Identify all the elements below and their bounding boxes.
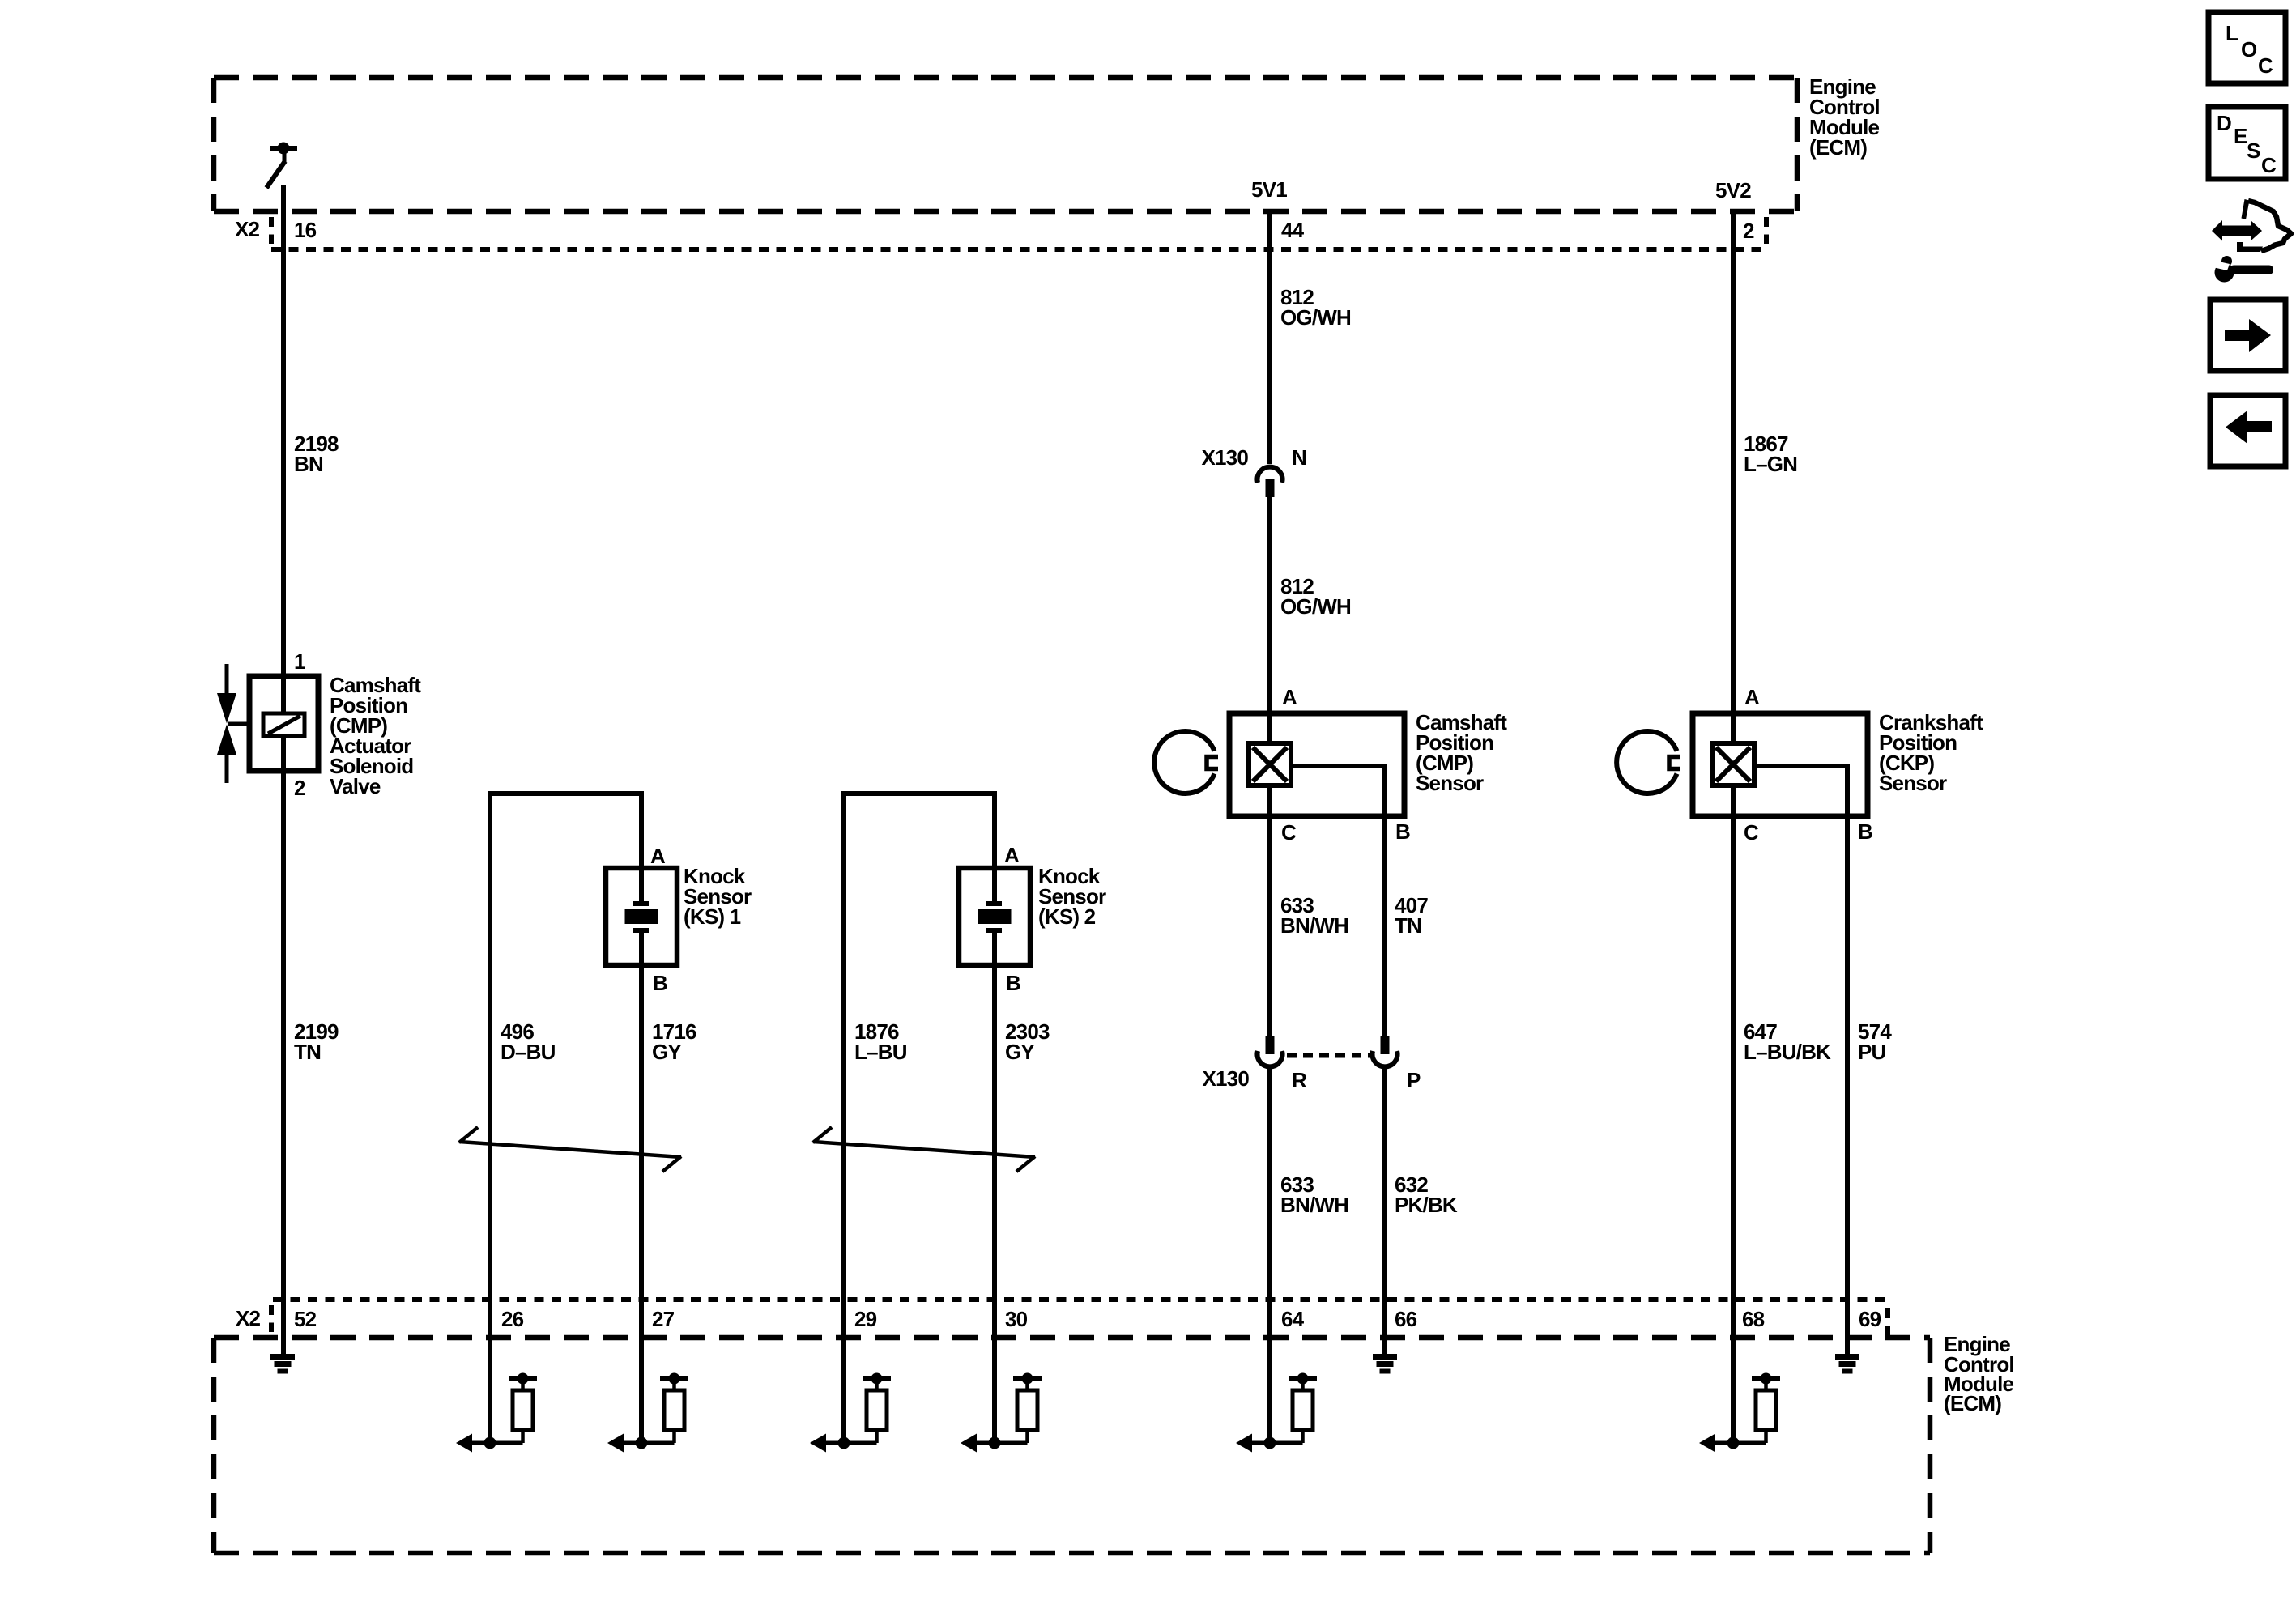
twisted pair mark KS1 — [459, 1127, 681, 1172]
svg-text:29: 29 — [854, 1307, 877, 1331]
svg-text:68: 68 — [1742, 1307, 1765, 1331]
wire 2303 GY from KS2 B — [992, 932, 997, 1443]
wire label 633 BN/WH lower — [1280, 1172, 1348, 1217]
wire label 633 BN/WH upper — [1280, 893, 1348, 938]
wire 632 PK/BK — [1382, 1069, 1387, 1356]
label Knock Sensor (KS) 2 — [1038, 864, 1106, 929]
svg-text:BN/WH: BN/WH — [1280, 913, 1348, 938]
wire 2198 BN / 2199 TN vertical — [281, 185, 286, 1356]
svg-text:52: 52 — [294, 1307, 317, 1331]
CKP sensor reluctor wheel — [1617, 731, 1680, 794]
svg-text:B: B — [1858, 819, 1872, 844]
svg-text:OG/WH: OG/WH — [1280, 594, 1351, 619]
icon LOC box — [2209, 12, 2285, 83]
valve symbol of CMP actuator — [217, 664, 250, 783]
wire 812 OG/WH (5V1) — [1267, 211, 1272, 464]
ECM bottom box (dashed outline) — [214, 1338, 1930, 1553]
wire 633 BN/WH lower — [1267, 1069, 1272, 1443]
wire label 632 PK/BK — [1395, 1172, 1458, 1217]
svg-text:OG/WH: OG/WH — [1280, 305, 1351, 330]
wire label 407 TN — [1395, 893, 1428, 938]
svg-text:X2: X2 — [236, 1306, 261, 1330]
svg-text:(KS) 2: (KS) 2 — [1038, 904, 1096, 929]
svg-text:Sensor: Sensor — [1416, 771, 1484, 795]
svg-text:X130: X130 — [1201, 445, 1248, 470]
svg-text:1: 1 — [294, 649, 305, 674]
CMP sensing element — [1249, 743, 1291, 785]
svg-text:B: B — [1006, 971, 1020, 995]
svg-text:Valve: Valve — [330, 774, 381, 798]
wire 1867 L-GN (5V2) — [1731, 211, 1736, 746]
svg-text:A: A — [650, 844, 666, 868]
svg-text:C: C — [1281, 820, 1297, 845]
ECM input circuit pin 27 — [607, 1373, 688, 1453]
ECM top box (dashed outline) — [214, 78, 1797, 211]
svg-text:16: 16 — [294, 218, 317, 242]
svg-text:L–BU: L–BU — [854, 1040, 907, 1064]
svg-text:D: D — [2217, 111, 2231, 135]
svg-text:N: N — [1292, 445, 1306, 470]
knock sensor 2 loop wire 1876 — [841, 791, 997, 1443]
svg-text:A: A — [1004, 843, 1020, 867]
connector X130 pin P female — [1373, 1051, 1398, 1066]
ECM input circuit pin 30 — [961, 1373, 1042, 1453]
wire label 1876 L-BU — [854, 1019, 907, 1064]
svg-text:27: 27 — [652, 1307, 675, 1331]
svg-text:O: O — [2241, 37, 2257, 62]
ground pin 66 — [1373, 1357, 1397, 1372]
twisted pair mark KS2 — [813, 1127, 1035, 1172]
svg-text:5V1: 5V1 — [1251, 177, 1287, 202]
svg-text:66: 66 — [1395, 1307, 1417, 1331]
connector X2 top row dotted line — [271, 247, 1763, 252]
wire label 2198 BN — [294, 432, 339, 476]
svg-text:C: C — [2261, 153, 2277, 177]
svg-text:L–GN: L–GN — [1744, 452, 1797, 476]
svg-text:(ECM): (ECM) — [1809, 135, 1867, 160]
svg-text:S: S — [2247, 138, 2260, 163]
connector X2 top separator left — [269, 217, 274, 244]
wire label 1867 L-GN — [1744, 432, 1797, 476]
wire label 2199 TN — [294, 1019, 339, 1064]
connector X130 pin N male plug — [1266, 479, 1275, 497]
connector X130 pin R male plug — [1266, 1036, 1275, 1054]
connector X130 bridge dashed — [1287, 1053, 1370, 1058]
svg-text:A: A — [1744, 685, 1760, 709]
svg-text:L: L — [2226, 21, 2238, 45]
svg-text:2: 2 — [294, 776, 305, 800]
connector X2 bottom separator left — [269, 1305, 274, 1332]
icon arrow right box — [2210, 300, 2285, 371]
knock sensor KS2 box — [959, 868, 1030, 965]
label Crankshaft Position (CKP) Sensor — [1879, 710, 1983, 795]
wire label 812 OG/WH upper — [1280, 285, 1351, 330]
ECM input circuit pin 64 — [1236, 1373, 1317, 1453]
svg-text:C: C — [1744, 820, 1759, 845]
wire 1716 GY from KS1 B — [639, 932, 644, 1443]
ECM input circuit pin 26 — [456, 1373, 537, 1453]
label Knock Sensor (KS) 1 — [684, 864, 752, 929]
svg-text:C: C — [2258, 53, 2273, 78]
svg-text:PK/BK: PK/BK — [1395, 1193, 1458, 1217]
icon DESC box — [2209, 107, 2285, 179]
label Engine Control Module (ECM) top — [1809, 74, 1880, 160]
knock sensor KS1 box — [606, 868, 677, 965]
svg-text:69: 69 — [1859, 1307, 1881, 1331]
wire label 647 L-BU/BK — [1744, 1019, 1831, 1064]
KS1 piezo element — [625, 904, 658, 930]
svg-text:B: B — [653, 971, 667, 995]
CKP sensor box — [1693, 713, 1868, 816]
wire label 812 OG/WH lower — [1280, 574, 1351, 619]
ECM low-side driver switch Q — [266, 143, 297, 189]
svg-text:44: 44 — [1281, 218, 1305, 242]
connector X130 pin P male plug — [1381, 1036, 1390, 1054]
connector X2 bottom row dotted line — [273, 1297, 1886, 1302]
svg-text:D–BU: D–BU — [501, 1040, 556, 1064]
wire label 1716 GY — [652, 1019, 696, 1064]
svg-text:B: B — [1395, 819, 1410, 844]
svg-text:GY: GY — [1005, 1040, 1034, 1064]
wire 574 PU from CKP B — [1753, 766, 1847, 1356]
wire 633 BN/WH from CMP C — [1267, 783, 1272, 1036]
svg-text:5V2: 5V2 — [1715, 178, 1751, 202]
wire 647 L-BU/BK from CKP C — [1731, 783, 1736, 1443]
ground pin 69 — [1835, 1357, 1859, 1372]
svg-text:L–BU/BK: L–BU/BK — [1744, 1040, 1831, 1064]
svg-text:R: R — [1292, 1068, 1307, 1092]
connector X130 pin N female — [1258, 467, 1283, 483]
svg-text:PU: PU — [1858, 1040, 1886, 1064]
svg-text:(ECM): (ECM) — [1944, 1391, 2001, 1415]
label Camshaft Position (CMP) Actuator Solenoid Valve — [330, 673, 421, 798]
KS2 piezo element — [978, 904, 1012, 930]
svg-text:30: 30 — [1005, 1307, 1028, 1331]
svg-text:2: 2 — [1743, 219, 1754, 243]
label Camshaft Position (CMP) Sensor — [1416, 710, 1507, 795]
wire label 496 D-BU — [501, 1019, 556, 1064]
label Engine Control Module (ECM) bottom — [1944, 1332, 2014, 1415]
svg-text:Sensor: Sensor — [1879, 771, 1947, 795]
ground pin 52 — [270, 1357, 295, 1372]
CKP sensing element — [1712, 743, 1754, 785]
CMP sensor reluctor wheel — [1154, 731, 1218, 794]
svg-text:(KS) 1: (KS) 1 — [684, 904, 741, 929]
svg-text:GY: GY — [652, 1040, 681, 1064]
svg-text:A: A — [1282, 685, 1297, 709]
svg-text:TN: TN — [1395, 913, 1421, 938]
knock sensor 1 loop wire 496 — [488, 791, 644, 1443]
svg-text:TN: TN — [294, 1040, 321, 1064]
svg-text:X130: X130 — [1202, 1066, 1249, 1091]
ECM input circuit pin 68 — [1699, 1373, 1780, 1453]
wire 812 OG/WH lower — [1267, 497, 1272, 746]
connector X2 bottom separator right — [1885, 1308, 1890, 1335]
solenoid coil box — [263, 713, 305, 736]
connector X130 pin R female — [1258, 1051, 1283, 1066]
svg-text:26: 26 — [501, 1307, 524, 1331]
icon vehicle with wrench — [2211, 199, 2291, 283]
svg-text:X2: X2 — [235, 217, 260, 241]
wire label 2303 GY — [1005, 1019, 1050, 1064]
CMP actuator solenoid valve box — [249, 676, 318, 771]
svg-text:P: P — [1407, 1068, 1421, 1092]
svg-text:BN: BN — [294, 452, 323, 476]
ECM input circuit pin 29 — [810, 1373, 891, 1453]
connector X2 top separator right — [1764, 217, 1769, 244]
svg-text:E: E — [2234, 124, 2247, 148]
svg-text:64: 64 — [1281, 1307, 1305, 1331]
icon arrow left box — [2210, 395, 2285, 466]
wire label 574 PU — [1858, 1019, 1892, 1064]
svg-text:BN/WH: BN/WH — [1280, 1193, 1348, 1217]
CMP sensor box — [1229, 713, 1404, 816]
wire 407 TN from CMP B — [1289, 766, 1385, 1036]
